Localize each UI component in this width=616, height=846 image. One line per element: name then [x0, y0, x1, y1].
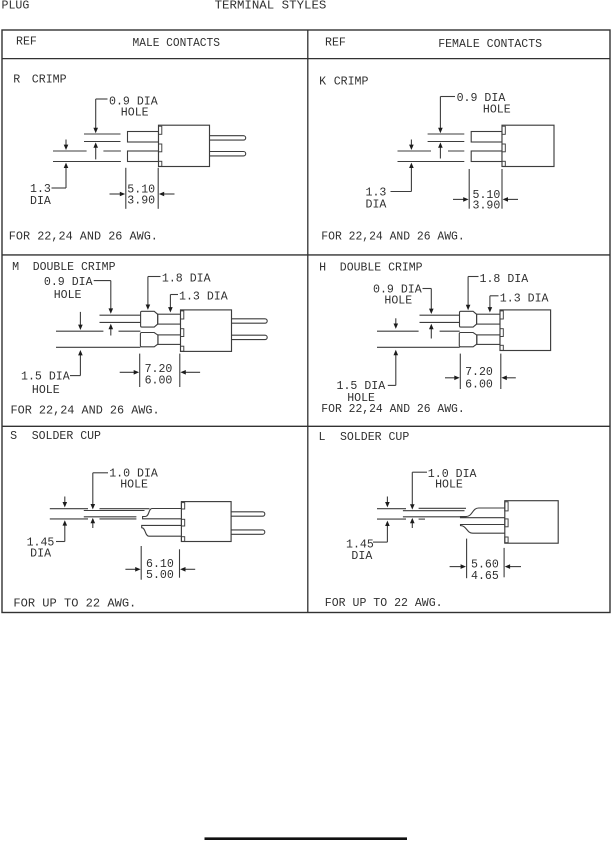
svg-text:3.90: 3.90	[127, 195, 155, 208]
M crimp 7.20/6.00 dimension	[120, 354, 200, 388]
svg-text:HOLE: HOLE	[54, 289, 82, 302]
H crimp 0.9 DIA leader and text	[373, 284, 431, 308]
S cup 1.45 DIA leader and text	[27, 537, 65, 561]
H crimp 7.20/6.00 dimension	[445, 354, 516, 392]
K crimp caption FOR 22,24 AND 26 AWG.	[321, 231, 464, 244]
svg-text:1.3 DIA: 1.3 DIA	[179, 291, 228, 304]
M double crimp contact body with pins	[181, 310, 268, 352]
M crimp 1.5 DIA dimension arrows	[78, 312, 83, 376]
H crimp lower barrel	[477, 335, 500, 345]
svg-text:HOLE: HOLE	[32, 384, 60, 397]
svg-text:0.9 DIA: 0.9 DIA	[44, 276, 93, 289]
M crimp 0.9 DIA dimension arrows	[109, 281, 114, 336]
L solder cup contact body	[505, 501, 558, 544]
svg-text:HOLE: HOLE	[435, 479, 463, 492]
K crimp upper barrel	[471, 132, 502, 143]
svg-text:1.8 DIA: 1.8 DIA	[480, 273, 529, 286]
svg-text:FOR 22,24 AND 26 AWG.: FOR 22,24 AND 26 AWG.	[321, 403, 464, 416]
L solder cup upper prong	[461, 508, 505, 518]
svg-text:DIA: DIA	[366, 198, 387, 211]
table row divider 2	[2, 425, 610, 427]
L solder cup hole lines (1.0 dia)	[403, 511, 465, 517]
K crimp 0.9 DIA leader and text	[440, 92, 510, 117]
label M DOUBLE CRIMP	[12, 261, 115, 274]
svg-text:R: R	[13, 74, 20, 87]
svg-text:CRIMP: CRIMP	[32, 74, 67, 87]
svg-text:DOUBLE CRIMP: DOUBLE CRIMP	[33, 261, 116, 274]
svg-text:HOLE: HOLE	[483, 104, 511, 117]
svg-text:K: K	[319, 76, 326, 89]
svg-text:DIA: DIA	[30, 195, 51, 208]
svg-text:1.8 DIA: 1.8 DIA	[162, 273, 211, 286]
svg-text:TERMINAL STYLES: TERMINAL STYLES	[215, 0, 327, 12]
svg-text:FOR UP TO 22 AWG.: FOR UP TO 22 AWG.	[325, 597, 443, 610]
svg-text:DIA: DIA	[351, 550, 372, 563]
L cup caption FOR UP TO 22 AWG.	[325, 597, 443, 610]
H crimp caption FOR 22,24 AND 26 AWG.	[321, 403, 464, 416]
svg-text:FOR 22,24 AND 26 AWG.: FOR 22,24 AND 26 AWG.	[11, 405, 160, 418]
S cup 1.45 DIA dimension arrows	[63, 497, 68, 542]
H crimp 1.8 DIA leader arrow and text	[466, 273, 528, 310]
title TERMINAL STYLES	[215, 0, 327, 12]
label S SOLDER CUP	[10, 430, 101, 443]
header REF (male)	[16, 36, 37, 49]
R crimp contact body with pins	[159, 125, 246, 166]
K crimp 0.9 DIA dimension arrows	[438, 97, 443, 159]
svg-text:SOLDER CUP: SOLDER CUP	[32, 430, 101, 443]
L cup 1.45 DIA leader and text	[346, 538, 387, 563]
R crimp caption FOR 22,24 AND 26 AWG.	[9, 231, 158, 244]
H double crimp contact body	[500, 310, 551, 351]
header REF (female)	[325, 36, 346, 49]
label R CRIMP	[13, 74, 66, 87]
table outer border	[2, 30, 610, 613]
svg-text:CRIMP: CRIMP	[334, 76, 369, 89]
K crimp lower barrel	[471, 151, 502, 162]
M crimp upper wire lines	[100, 315, 141, 322]
title PLUG	[2, 0, 30, 12]
L cup 1.0 DIA dimension arrows	[410, 472, 415, 528]
svg-text:S: S	[10, 430, 17, 443]
svg-text:REF: REF	[325, 36, 346, 49]
S solder cup outer wire lines (1.45 dia)	[50, 509, 150, 519]
M crimp 0.9 DIA leader and text	[44, 276, 111, 302]
M crimp upper ferrule	[141, 311, 158, 327]
M crimp upper barrel	[158, 314, 181, 324]
label K CRIMP	[319, 76, 368, 89]
R crimp lower wire lines	[53, 151, 121, 162]
M crimp 1.5 DIA leader and text	[21, 371, 80, 397]
svg-text:HOLE: HOLE	[120, 479, 148, 492]
svg-text:6.00: 6.00	[465, 378, 493, 391]
R crimp 5.10/3.90 dimension	[110, 168, 175, 209]
H crimp lower ferrule	[459, 333, 477, 347]
M crimp caption FOR 22,24 AND 26 AWG.	[11, 405, 160, 418]
M crimp lower ferrule	[140, 333, 158, 347]
table row divider 1	[2, 254, 610, 256]
K crimp 1.3 DIA dimension arrows	[409, 140, 414, 192]
H crimp upper ferrule	[460, 311, 477, 327]
svg-text:7.20: 7.20	[465, 366, 493, 379]
H crimp upper wire lines	[420, 315, 460, 322]
svg-text:HOLE: HOLE	[121, 106, 149, 119]
svg-text:1.5 DIA: 1.5 DIA	[21, 371, 70, 384]
svg-text:REF: REF	[16, 36, 37, 49]
svg-text:FOR 22,24 AND 26 AWG.: FOR 22,24 AND 26 AWG.	[321, 231, 464, 244]
header MALE CONTACTS	[133, 37, 221, 50]
svg-text:FOR UP TO 22 AWG.: FOR UP TO 22 AWG.	[13, 598, 136, 611]
svg-text:L: L	[319, 431, 326, 444]
S cup caption FOR UP TO 22 AWG.	[13, 598, 136, 611]
header FEMALE CONTACTS	[438, 38, 542, 51]
S cup 1.0 DIA dimension arrows	[91, 473, 96, 528]
S solder cup hole lines (1.0 dia)	[84, 511, 145, 517]
svg-text:4.65: 4.65	[471, 570, 499, 583]
svg-text:3.90: 3.90	[473, 200, 501, 213]
label H DOUBLE CRIMP	[319, 262, 422, 275]
K crimp 1.3 DIA leader and text	[366, 186, 412, 211]
svg-text:DOUBLE CRIMP: DOUBLE CRIMP	[340, 262, 423, 275]
R crimp 1.3 DIA dimension arrows	[64, 140, 69, 189]
svg-text:PLUG: PLUG	[2, 0, 30, 12]
label L SOLDER CUP	[319, 431, 410, 444]
H crimp 1.3 DIA leader arrow and text	[488, 293, 549, 313]
S cup 6.10/5.00 dimension	[125, 546, 195, 582]
R crimp 0.9 DIA leader and text	[96, 95, 158, 119]
svg-text:1.5 DIA: 1.5 DIA	[337, 380, 386, 393]
svg-text:FEMALE CONTACTS: FEMALE CONTACTS	[438, 38, 542, 51]
svg-text:HOLE: HOLE	[384, 295, 412, 308]
R crimp upper barrel	[128, 132, 159, 143]
K crimp lower wire lines	[398, 151, 465, 162]
svg-text:FOR 22,24 AND 26 AWG.: FOR 22,24 AND 26 AWG.	[9, 231, 158, 244]
S solder cup contact body with pins	[181, 502, 264, 542]
L cup 5.60/4.65 dimension	[450, 539, 521, 583]
S solder cup upper prong	[143, 509, 182, 519]
L solder cup lower prong	[461, 525, 505, 534]
svg-text:MALE CONTACTS: MALE CONTACTS	[133, 37, 221, 50]
svg-text:SOLDER CUP: SOLDER CUP	[340, 431, 409, 444]
H crimp upper barrel	[477, 314, 500, 324]
table center divider	[307, 30, 309, 613]
M crimp lower barrel	[158, 335, 181, 345]
K crimp 5.10/3.90 dimension	[453, 169, 518, 213]
H crimp 1.5 DIA leader and text	[337, 380, 396, 405]
M crimp 1.8 DIA leader arrow and text	[146, 273, 211, 310]
L cup 1.45 DIA dimension arrows	[385, 497, 390, 543]
S solder cup lower prong	[142, 525, 182, 536]
L solder cup outer wire lines (1.45 dia)	[377, 508, 466, 519]
S cup 1.0 DIA leader and text	[93, 467, 158, 491]
R crimp 1.3 DIA leader and text	[30, 183, 66, 208]
M crimp lower wire lines	[56, 331, 140, 347]
M crimp 1.3 DIA leader arrow and text	[168, 291, 228, 313]
H crimp 1.5 DIA dimension arrows	[394, 318, 399, 385]
svg-text:5.00: 5.00	[146, 569, 174, 582]
svg-text:DIA: DIA	[30, 547, 51, 560]
R crimp 0.9 DIA dimension arrows	[93, 99, 98, 159]
K crimp upper wire lines	[428, 134, 465, 142]
R crimp upper wire lines	[84, 134, 121, 142]
svg-text:H: H	[319, 262, 326, 275]
K crimp contact body	[502, 125, 554, 166]
svg-text:M: M	[12, 261, 19, 274]
table header divider	[2, 58, 610, 60]
svg-text:1.3 DIA: 1.3 DIA	[500, 293, 549, 306]
R crimp lower barrel	[128, 151, 159, 162]
svg-text:6.00: 6.00	[145, 374, 173, 387]
H crimp lower wire lines	[377, 331, 460, 347]
L cup 1.0 DIA leader and text	[412, 468, 476, 492]
footer rule	[205, 837, 408, 840]
H crimp 0.9 DIA dimension arrows	[429, 289, 434, 339]
